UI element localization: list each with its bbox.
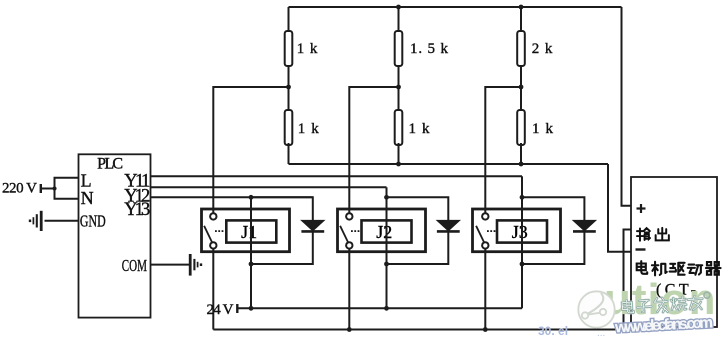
node branch 2 midpoint junction [396,85,401,90]
svg-text:N: N [81,188,94,208]
relay J3 contact outer box [473,209,561,252]
relay J1 switch arm [204,226,212,243]
ground symbol at COM [189,254,192,276]
wire Y11 drop [521,176,523,197]
wire diode D3 cathode jog [522,231,584,264]
svg-text:30. el: 30. el [538,324,568,338]
svg-text:PLC: PLC [97,156,123,173]
svg-text:J2: J2 [376,222,392,242]
wire 220 V feed [41,188,55,190]
wire relay J3 coil drive [521,197,523,308]
svg-text:1. 5 k: 1. 5 k [410,41,449,57]
wire Y11 output [151,175,523,177]
resistor R5 (2 k) [517,31,525,66]
wire Y12 drop [386,187,388,197]
resistor R6 (1 k) [517,110,525,145]
svg-text:1 k: 1 k [297,41,318,57]
label 电机驱动器 (motor driver) [637,261,721,275]
node Y-row / J2 coil [384,195,389,200]
watermark leaf logo [578,291,614,327]
wire diode D1 cathode jog [251,231,313,264]
wire GND pin [45,220,79,222]
resistor R3 (1.5 k) [395,31,403,66]
wire branch 3 tap to relay J3 contact [485,87,521,213]
wire relay J1 coil drive [250,197,252,308]
terminal + [637,207,646,209]
wire top rail drop to motor driver + terminal [622,7,632,206]
node top rail / branch 2 [396,5,401,10]
node 24V rail / J2 coil [384,306,389,311]
wire relay J2 bottom contact to output rail [348,249,350,330]
relay J2 linkage dots [351,230,353,232]
resistor R4 (1 k) [395,110,403,145]
relay J3 linkage dots [487,230,489,232]
relay J3 switch arm [476,226,484,243]
node lower rail / branch 2 [396,162,401,167]
svg-text:2 k: 2 k [532,41,553,57]
svg-text:1 k: 1 k [532,121,554,137]
svg-text:220 V: 220 V [2,181,37,197]
wire 24 V rail [237,307,522,309]
wire branch 3 bottom lead [520,143,522,164]
node 24V rail / J1 coil [249,306,254,311]
node top rail / branch 3 [519,5,524,10]
wire fork to L and N pins [55,178,79,199]
wire branch 2 middle lead [398,66,400,110]
node branch 3 midpoint junction [519,85,524,90]
wire branch 3 top lead [520,7,522,31]
svg-text:1 k: 1 k [409,121,431,137]
relay J1 contact outer box [202,209,290,252]
wire diode D2 cathode jog [387,231,449,264]
relay J3 coil box [497,220,547,242]
relay J2 contact outer box [338,209,426,252]
svg-text:...: ... [597,328,605,339]
wire to diode D3 anode [522,197,584,220]
wire branch 2 top lead [398,7,400,31]
watermark www.elecfans.com (white embossed) [614,314,714,336]
relay J1 top contact [210,213,216,219]
motor driver box [631,177,717,327]
220 V source tick [40,184,42,193]
PLC controller box [79,154,151,317]
relay J2 bottom contact [346,242,352,248]
relay J1 bottom contact [210,242,216,248]
node output rail / J2 contact [347,327,352,332]
diode D3 (flyback) [573,220,596,230]
wire branch 1 bottom lead [288,143,290,164]
watermark 电子发烧友 elecfans (white embossed) [622,292,711,315]
relay J1 coil box [226,220,276,242]
wire relay J2 coil drive [386,197,388,308]
label 输出 (output) [637,228,669,241]
node Y-row / J3 coil [520,195,525,200]
terminal - [636,248,646,250]
wire branch 1 tap to relay J1 contact [213,87,288,213]
wire branch 2 bottom lead [398,143,400,164]
node diode D1 return / coil wire [249,262,254,267]
wire branch 3 middle lead [520,66,522,110]
node 220 V fork junction [52,186,56,190]
relay J3 bottom contact [482,242,488,248]
svg-text:24 V: 24 V [207,302,234,318]
node branch 1 midpoint junction [286,85,291,90]
wire lower resistor rail [289,163,609,165]
wire relay J1 bottom contact to output rail [212,249,214,330]
wire lower rail drop to motor driver - terminal [608,164,631,252]
relay J2 switch arm [340,226,348,243]
wire to diode D1 anode [251,197,313,220]
svg-text:GND: GND [80,213,106,232]
relay J2 top contact [346,213,352,219]
24 V source tick [236,304,238,313]
svg-text:1 k: 1 k [298,121,320,137]
node diode D2 return / coil wire [384,262,389,267]
relay J2 coil box [362,220,412,242]
svg-text:J1: J1 [241,222,257,242]
svg-text:J3: J3 [512,222,528,242]
diode D1 (flyback) [301,220,324,230]
node diode D3 return / coil wire [520,262,525,267]
wire Y12 output [151,186,387,188]
wire Y13 output [151,196,313,198]
wire to diode D2 anode [387,197,449,220]
relay J3 top contact [482,213,488,219]
diode D2 (flyback) [437,220,460,230]
svg-text:COM: COM [122,257,147,276]
node lower rail / branch 3 [519,162,524,167]
svg-text:Y13: Y13 [124,200,150,220]
wire COM pin [151,264,190,266]
resistor R2 (1 k) [285,110,293,145]
node output rail / J3 contact [483,327,488,332]
wire branch 1 top lead [288,7,290,31]
node Y-row / J1 coil [249,195,254,200]
wire branch 2 tap to relay J2 contact [349,87,398,213]
wire branch 1 middle lead [288,66,290,110]
wire relay J3 bottom contact to output rail [484,249,486,330]
wire switched output rail to motor driver [213,230,631,330]
ground symbol at PLC GND [40,211,43,231]
wire top +supply rail [289,6,622,8]
resistor R1 (1 k) [285,31,293,66]
relay J1 linkage dots [215,230,217,232]
